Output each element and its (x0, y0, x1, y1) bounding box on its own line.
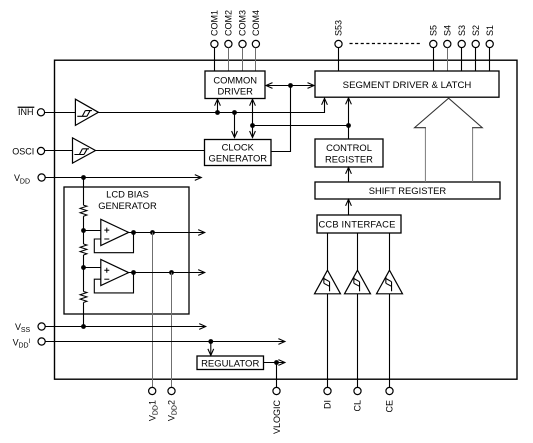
svg-text:OSCI: OSCI (12, 147, 34, 157)
svg-text:COM1: COM1 (210, 10, 220, 36)
svg-text:SHIFT REGISTER: SHIFT REGISTER (369, 185, 447, 196)
svg-text:I: I (29, 339, 31, 345)
svg-text:GENERATOR: GENERATOR (98, 200, 157, 211)
block CCB INTERFACE (317, 215, 401, 233)
wire clock line to control-register node (253, 125, 349, 127)
block SHIFT REGISTER (315, 182, 500, 199)
node junction on INH line at x=217 (215, 110, 220, 115)
pin INH (active low) (18, 107, 45, 117)
pin S2 (471, 25, 481, 48)
op-amp U4 (bias buffer 2) (101, 259, 129, 285)
wire op-amp1 output with arrow (129, 230, 205, 236)
pin CL (353, 387, 363, 411)
node ladder tap 2 (81, 265, 86, 270)
outer chip boundary box (55, 60, 518, 379)
schmitt buffer U7 (CE input) (377, 270, 403, 294)
wire VDD rail with arrow (45, 175, 201, 181)
pin DI (323, 387, 333, 409)
pin S53 (334, 20, 344, 48)
wire op-amp2 output with arrow (129, 270, 205, 276)
wire VDD1 vertical drop (152, 233, 154, 388)
node regulator output to VLOGIC (274, 360, 279, 365)
wire tap1 to op-amp 1 + input (84, 230, 101, 232)
svg-text:VLOGIC: VLOGIC (272, 400, 282, 435)
wire CL buffer down to pin (357, 294, 359, 388)
schmitt buffer U6 (CL input) (345, 270, 371, 294)
node junction on bidirectional arrow (288, 83, 293, 88)
node op-amp2 feedback junction (131, 270, 136, 275)
svg-text:S3: S3 (457, 25, 467, 36)
svg-text:LCD BIAS: LCD BIAS (106, 189, 149, 200)
svg-text:REGISTER: REGISTER (325, 153, 373, 164)
wire CCB to CE buffer (389, 233, 391, 270)
pin COM1 (210, 10, 220, 48)
svg-text:S4: S4 (443, 25, 453, 36)
wire VSS rail with arrow (45, 324, 206, 330)
big bus arrow SHIFT REGISTER to SEGMENT DRIVER (424, 128, 426, 182)
pin COM3 (238, 10, 248, 48)
wire double arrow COMMON DRIVER / CLOCK GENERATOR (250, 99, 256, 137)
wire OSCI buffer to CLOCK GENERATOR (96, 150, 205, 152)
node junction at x=252 y=126 (250, 123, 255, 128)
block LCD BIAS GENERATOR (64, 187, 189, 314)
wire CONTROL REGISTER up to SEGMENT DRIVER (arrow) (346, 98, 352, 139)
wire bias ladder top segment (83, 178, 85, 206)
wire op-amp2 feedback loop (94, 273, 133, 293)
pin S1 (485, 25, 495, 48)
resistor R2 (80, 244, 87, 255)
node junction VDD to bias ladder (81, 175, 86, 180)
wire INH pin to buffer (45, 112, 76, 114)
wire INH line to segment driver (with up arrow) (98, 98, 327, 112)
node ladder tap 1 (81, 228, 86, 233)
pin VSS (15, 322, 45, 334)
wire S53 to SEGMENT DRIVER (338, 48, 340, 71)
wire arrow SHIFT REGISTER up to CONTROL REGISTER (346, 167, 352, 182)
wire arrow CCB INTERFACE up to SHIFT REGISTER (346, 199, 352, 215)
svg-text:GENERATOR: GENERATOR (209, 152, 268, 163)
wire arrow down into REGULATOR (208, 342, 214, 356)
svg-text:DRIVER: DRIVER (217, 85, 253, 96)
wire COM2 to COMMON DRIVER (228, 48, 230, 71)
pin VDD-I (13, 337, 46, 349)
wire VLOGIC vertical drop (276, 363, 278, 388)
svg-text:COM2: COM2 (224, 10, 234, 36)
wire VDD-I rail with arrow (45, 339, 285, 345)
op-amp U3 (bias buffer 1) (101, 219, 129, 245)
wire down arrow into CLOCK GENERATOR top (232, 113, 238, 138)
wire CCB to DI buffer (327, 233, 329, 270)
resistor R1 (80, 205, 87, 216)
pin COM2 (224, 10, 234, 48)
svg-text:SEGMENT DRIVER & LATCH: SEGMENT DRIVER & LATCH (343, 80, 472, 91)
svg-text:S5: S5 (429, 25, 439, 36)
svg-text:DI: DI (323, 400, 333, 409)
pin VDD (14, 173, 45, 185)
svg-text:INH: INH (18, 107, 34, 117)
wire CCB to CL buffer (357, 233, 359, 270)
svg-text:VDD1: VDD1 (147, 400, 159, 421)
wire S4 (447, 48, 449, 71)
schmitt buffer U5 (DI input) (315, 270, 341, 294)
wire from node down into CLOCK GENERATOR right side (271, 86, 291, 152)
wire tap2 to op-amp 2 + input (84, 267, 101, 269)
svg-text:S53: S53 (334, 20, 344, 36)
pin VLOGIC (272, 387, 282, 434)
schmitt buffer U2 (OSCI) (73, 138, 96, 163)
wire VDD2 vertical drop (171, 273, 173, 388)
block CONTROL REGISTER (315, 139, 383, 167)
pin OSCI (12, 147, 44, 157)
node op-amp2 output to VDD2 (169, 270, 174, 275)
svg-text:COM4: COM4 (251, 10, 261, 36)
wire REGULATOR output with arrow (264, 360, 285, 366)
svg-text:CLOCK: CLOCK (222, 141, 255, 152)
pin S5 (429, 25, 439, 48)
block COMMON DRIVER (205, 71, 265, 99)
pin S4 (443, 25, 453, 48)
node op-amp1 output to VDD1 (150, 230, 155, 235)
wire S1 (489, 48, 491, 71)
svg-text:VDD2: VDD2 (167, 400, 179, 421)
wire S5 (433, 48, 435, 71)
pin VDD1 (147, 387, 159, 421)
node VSS / ladder junction (81, 324, 86, 329)
block SEGMENT DRIVER & LATCH (315, 71, 499, 97)
wire COM4 to COMMON DRIVER (255, 48, 257, 71)
pin VDD2 (167, 387, 179, 421)
wire ladder R3 down to VSS rail (83, 303, 85, 327)
schmitt buffer U1 (INH) (75, 99, 98, 125)
wire OSCI pin to buffer (45, 150, 73, 152)
svg-text:CCB INTERFACE: CCB INTERFACE (319, 219, 396, 230)
block CLOCK GENERATOR (205, 140, 272, 166)
block REGULATOR (197, 356, 264, 370)
pin COM4 (251, 10, 261, 48)
wire bidirectional arrow COMMON DRIVER <-> SEGMENT DRIVER (266, 83, 314, 89)
pin CE (385, 387, 395, 412)
wire S3 (461, 48, 463, 71)
wire CE buffer down to pin (389, 294, 391, 388)
node junction above CONTROL REGISTER (346, 123, 351, 128)
svg-text:COMMON: COMMON (213, 75, 257, 86)
svg-text:CE: CE (385, 400, 395, 413)
svg-text:DD: DD (20, 178, 30, 185)
dashed ellipsis between S53 and S5 (350, 43, 421, 45)
svg-text:S1: S1 (485, 25, 495, 36)
svg-text:CL: CL (353, 400, 363, 412)
wire S2 (475, 48, 477, 71)
svg-text:REGULATOR: REGULATOR (201, 358, 259, 369)
wire COM1 to COMMON DRIVER (214, 48, 216, 71)
wire ladder R2 to node (83, 255, 85, 292)
wire DI buffer down to pin (327, 294, 329, 388)
pin S3 (457, 25, 467, 48)
resistor R3 (80, 292, 87, 303)
node op-amp1 feedback junction (131, 230, 136, 235)
wire up arrow into COMMON DRIVER bottom (215, 99, 221, 112)
wire op-amp1 feedback loop (94, 233, 133, 253)
svg-text:DD: DD (19, 343, 29, 350)
svg-text:S2: S2 (471, 25, 481, 36)
wire COM3 to COMMON DRIVER (242, 48, 244, 71)
node VDD-I to regulator (208, 339, 213, 344)
svg-text:SS: SS (21, 327, 31, 334)
svg-text:COM3: COM3 (238, 10, 248, 36)
svg-text:CONTROL: CONTROL (326, 142, 372, 153)
wire ladder R1 to node (83, 216, 85, 244)
node junction on INH line at x=235 (232, 110, 237, 115)
